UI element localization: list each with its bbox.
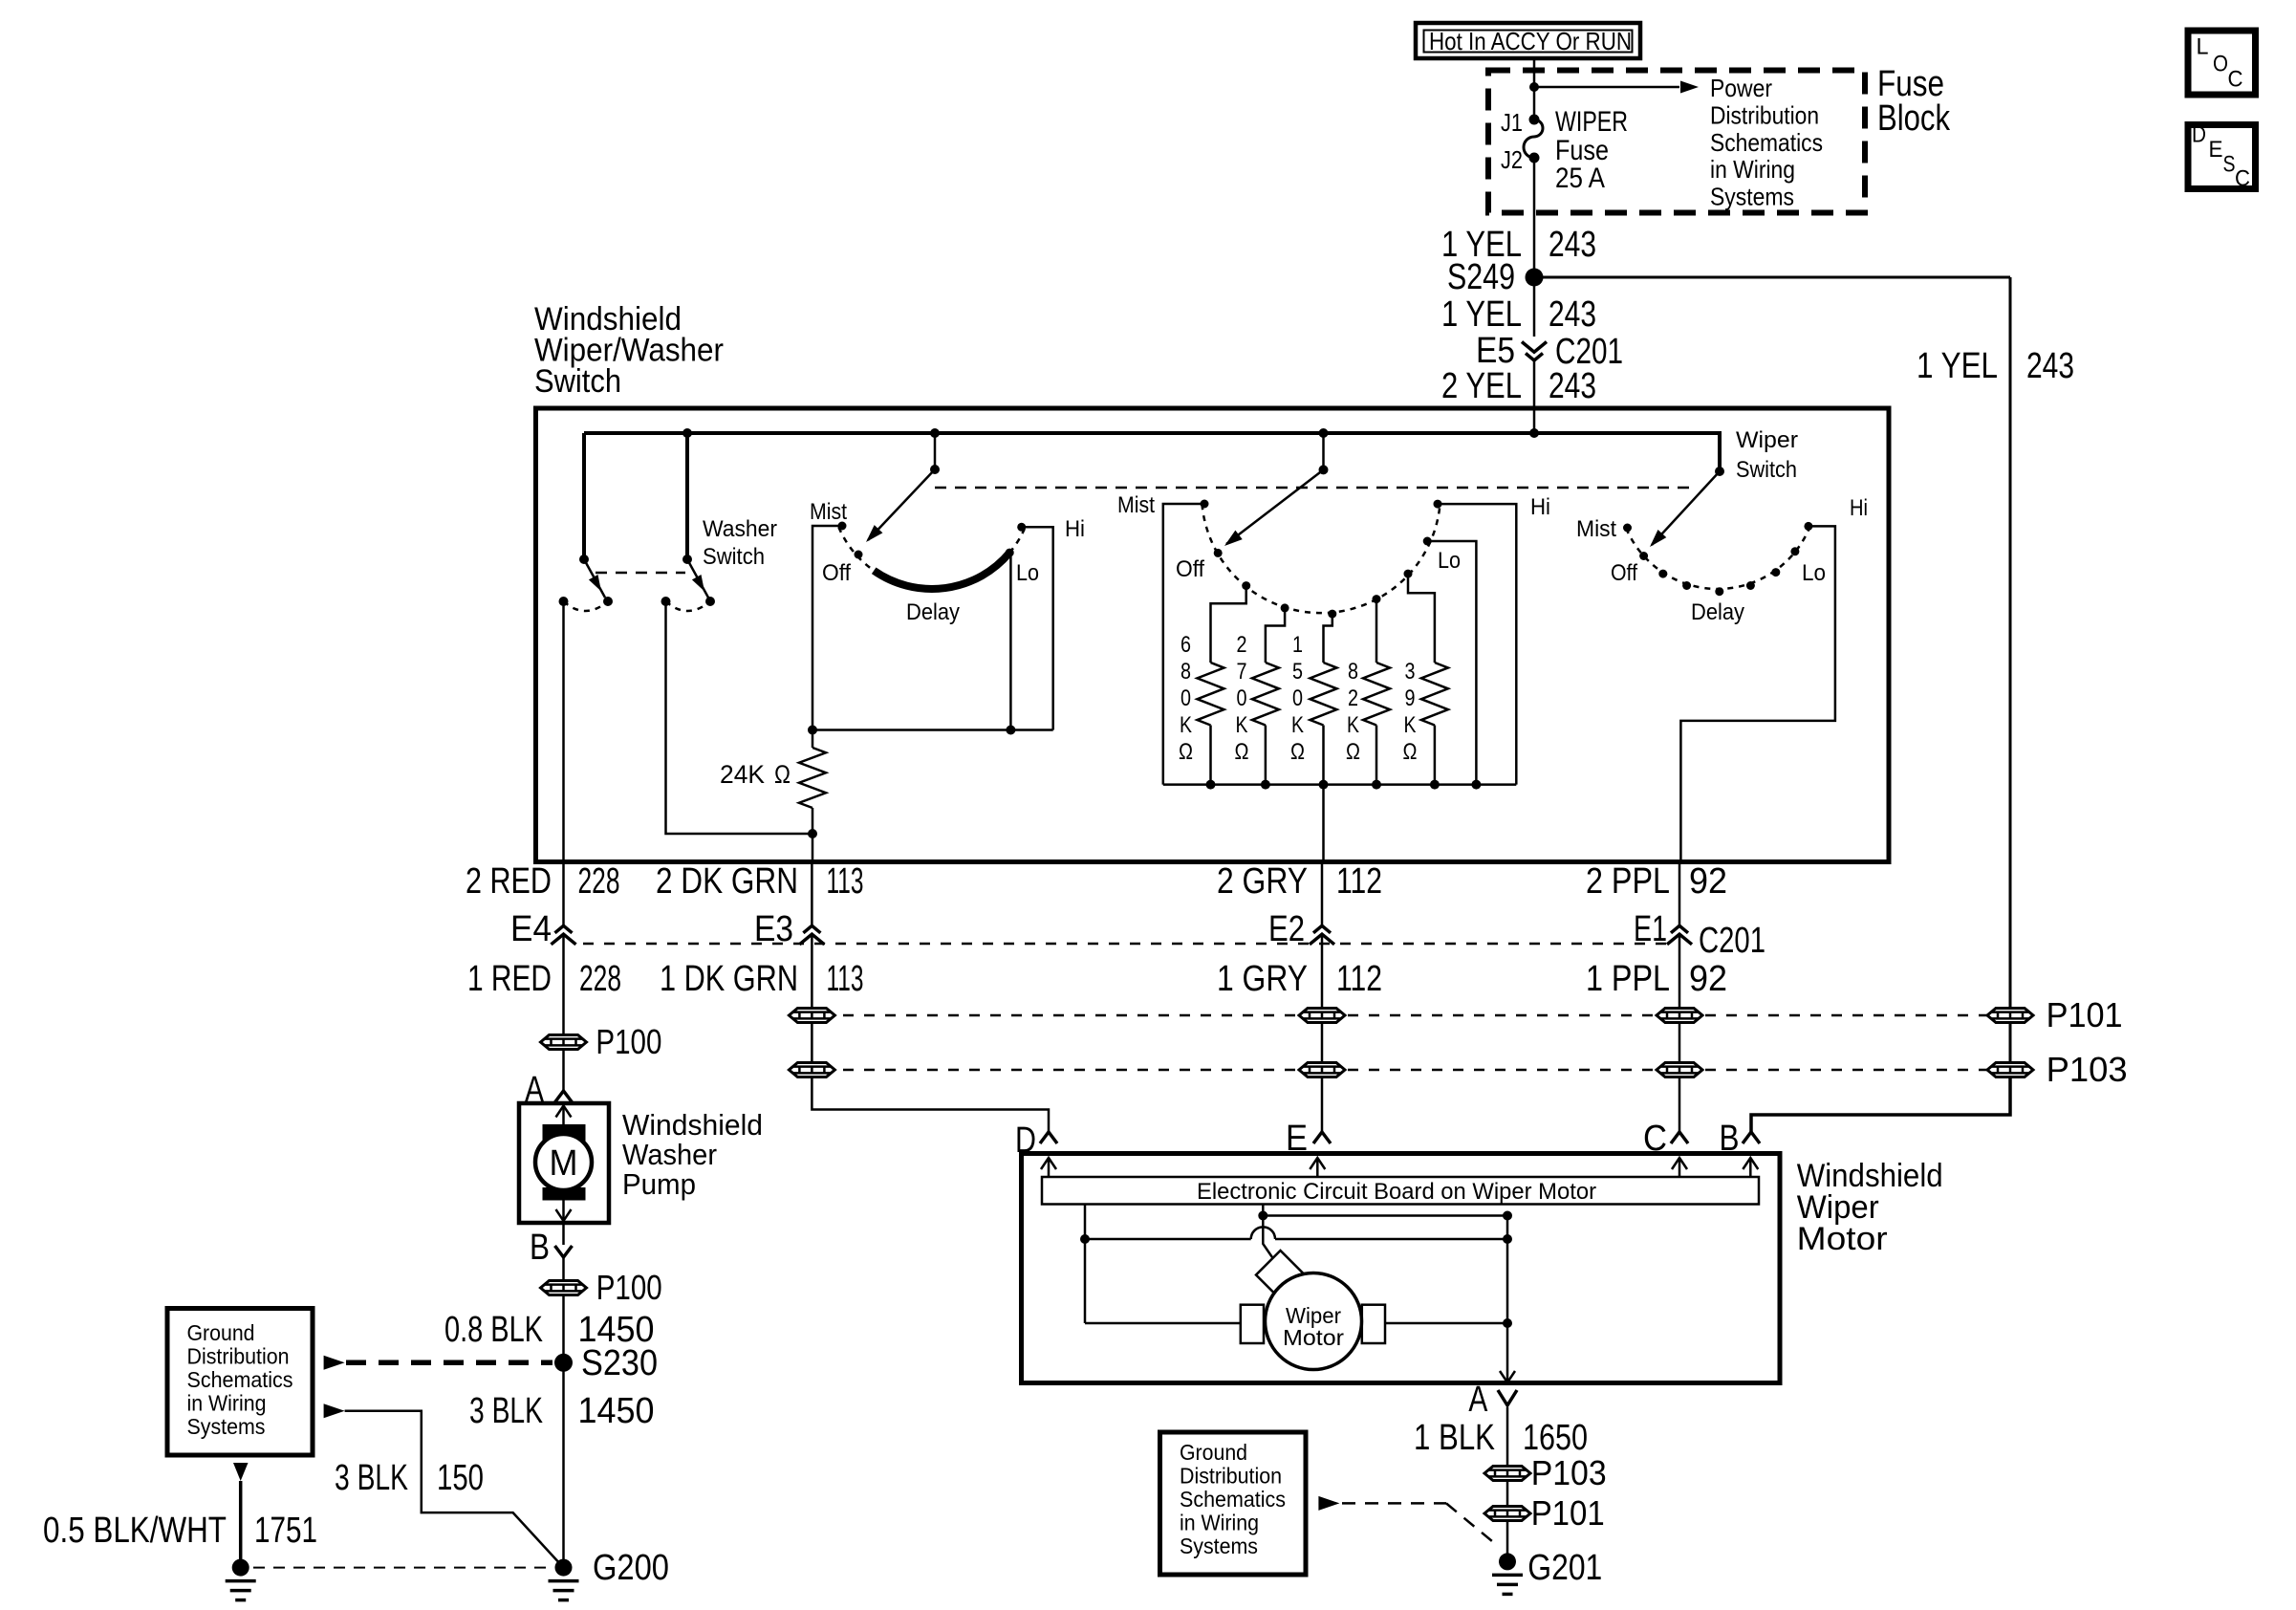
svg-text:1 PPL: 1 PPL [1586,959,1670,999]
svg-text:Washer: Washer [703,516,777,542]
svg-text:92: 92 [1689,959,1727,999]
svg-text:Systems: Systems [187,1414,266,1439]
svg-text:Schematics: Schematics [187,1367,293,1392]
svg-text:1 GRY: 1 GRY [1217,959,1308,999]
svg-text:Distribution: Distribution [187,1344,290,1369]
svg-text:S230: S230 [581,1343,658,1383]
svg-text:E5: E5 [1476,331,1515,371]
svg-text:WIPER: WIPER [1555,106,1628,138]
svg-text:Ω: Ω [1235,739,1249,765]
svg-text:Mist: Mist [1576,516,1616,542]
svg-text:C: C [2228,67,2243,93]
svg-text:2 RED: 2 RED [466,861,552,902]
svg-text:Motor: Motor [1283,1325,1344,1350]
svg-text:228: 228 [579,959,621,999]
svg-text:Hi: Hi [1530,494,1550,520]
svg-text:24K: 24K [720,760,765,789]
svg-text:Delay: Delay [1691,599,1744,625]
svg-text:7: 7 [1237,659,1247,685]
svg-text:B: B [530,1228,550,1268]
svg-text:P103: P103 [1531,1453,1607,1492]
svg-text:Off: Off [822,560,851,586]
svg-text:P100: P100 [596,1268,662,1307]
svg-text:Block: Block [1877,98,1951,139]
svg-text:M: M [550,1143,578,1184]
svg-text:Ground: Ground [187,1320,255,1345]
svg-text:P103: P103 [2047,1050,2128,1089]
svg-text:Hi: Hi [1065,516,1085,542]
svg-text:1 DK GRN: 1 DK GRN [660,959,798,999]
svg-text:Off: Off [1611,560,1637,586]
svg-text:2 DK GRN: 2 DK GRN [656,861,798,902]
svg-text:O: O [2213,52,2228,77]
svg-text:Mist: Mist [810,499,847,525]
svg-text:K: K [1236,712,1248,738]
svg-text:8: 8 [1348,659,1358,685]
svg-text:K: K [1404,712,1417,738]
svg-text:2 GRY: 2 GRY [1217,861,1308,902]
svg-text:J1: J1 [1501,108,1523,137]
svg-text:3 BLK: 3 BLK [469,1391,543,1431]
svg-text:1 BLK: 1 BLK [1414,1418,1495,1458]
svg-text:2 YEL: 2 YEL [1441,366,1522,406]
svg-text:L: L [2197,34,2209,60]
svg-text:G201: G201 [1527,1548,1602,1588]
svg-text:E: E [2209,137,2223,163]
svg-text:243: 243 [1549,366,1596,406]
svg-text:113: 113 [827,861,864,902]
svg-text:Lo: Lo [1016,560,1039,586]
svg-text:0: 0 [1180,685,1191,711]
svg-text:1650: 1650 [1523,1418,1588,1458]
svg-text:in Wiring: in Wiring [1710,155,1795,184]
svg-text:Ω: Ω [1346,739,1360,765]
svg-text:Schematics: Schematics [1710,128,1823,157]
svg-text:Systems: Systems [1180,1534,1258,1558]
svg-text:Motor: Motor [1797,1221,1888,1257]
svg-text:Windshield: Windshield [622,1108,763,1142]
svg-text:Switch: Switch [703,544,765,570]
svg-text:Switch: Switch [1736,457,1797,483]
svg-text:243: 243 [1549,225,1596,265]
svg-text:Mist: Mist [1117,492,1155,518]
svg-text:2 PPL: 2 PPL [1586,861,1670,902]
svg-text:S: S [2223,152,2236,178]
svg-text:K: K [1347,712,1359,738]
svg-text:Ω: Ω [1290,739,1305,765]
svg-text:1: 1 [1292,632,1303,658]
svg-text:92: 92 [1689,861,1727,902]
svg-text:1 YEL: 1 YEL [1917,346,1998,386]
svg-text:J2: J2 [1501,145,1523,174]
svg-text:K: K [1291,712,1304,738]
svg-text:Distribution: Distribution [1180,1464,1282,1489]
svg-text:A: A [1468,1380,1488,1420]
svg-text:Lo: Lo [1438,548,1461,574]
svg-text:8: 8 [1180,659,1191,685]
svg-text:C: C [2235,166,2250,192]
svg-text:Schematics: Schematics [1180,1487,1286,1512]
svg-text:9: 9 [1405,685,1416,711]
svg-text:Delay: Delay [906,599,960,625]
svg-text:Ω: Ω [1179,739,1193,765]
svg-text:25 A: 25 A [1555,163,1605,194]
svg-text:Electronic Circuit Board on Wi: Electronic Circuit Board on Wiper Motor [1197,1179,1596,1205]
svg-text:2: 2 [1237,632,1247,658]
svg-text:228: 228 [578,861,620,902]
svg-text:Ω: Ω [1403,739,1418,765]
svg-text:113: 113 [827,959,864,999]
svg-text:Off: Off [1176,556,1204,582]
svg-text:Washer: Washer [622,1138,717,1171]
svg-text:S249: S249 [1447,257,1515,297]
svg-text:Systems: Systems [1710,183,1794,211]
svg-text:112: 112 [1336,959,1382,999]
svg-text:3 BLK: 3 BLK [335,1458,408,1498]
svg-text:150: 150 [437,1458,484,1498]
svg-text:112: 112 [1336,861,1382,902]
svg-text:0: 0 [1237,685,1247,711]
svg-text:Ω: Ω [774,760,791,789]
svg-text:E4: E4 [510,909,552,949]
svg-text:2: 2 [1348,685,1358,711]
svg-text:0.5 BLK/WHT: 0.5 BLK/WHT [43,1511,227,1551]
svg-text:1 YEL: 1 YEL [1441,294,1522,335]
svg-text:1 RED: 1 RED [467,959,552,999]
svg-text:5: 5 [1292,659,1303,685]
svg-text:P101: P101 [1531,1493,1605,1533]
svg-text:Power: Power [1710,74,1772,102]
svg-text:Hot In ACCY Or RUN: Hot In ACCY Or RUN [1429,27,1632,55]
svg-text:Switch: Switch [534,363,621,400]
svg-text:Distribution: Distribution [1710,100,1819,129]
svg-text:in Wiring: in Wiring [1180,1511,1259,1535]
svg-text:Wiper: Wiper [1736,427,1798,453]
svg-text:in Wiring: in Wiring [187,1391,267,1416]
svg-text:K: K [1180,712,1192,738]
svg-text:P100: P100 [596,1022,661,1061]
svg-text:Lo: Lo [1802,560,1826,586]
svg-text:C201: C201 [1699,921,1765,961]
svg-text:0.8 BLK: 0.8 BLK [444,1310,543,1350]
svg-text:243: 243 [2026,346,2074,386]
svg-text:P101: P101 [2047,995,2123,1034]
svg-text:D: D [2192,122,2206,148]
svg-text:G200: G200 [593,1548,669,1588]
svg-text:3: 3 [1405,659,1416,685]
svg-text:Ground: Ground [1180,1440,1247,1465]
svg-text:243: 243 [1549,294,1596,335]
svg-text:1450: 1450 [578,1391,655,1431]
svg-text:1751: 1751 [254,1511,317,1551]
svg-text:Pump: Pump [622,1167,696,1201]
svg-text:6: 6 [1180,632,1191,658]
svg-text:0: 0 [1292,685,1303,711]
svg-text:Hi: Hi [1850,495,1868,521]
